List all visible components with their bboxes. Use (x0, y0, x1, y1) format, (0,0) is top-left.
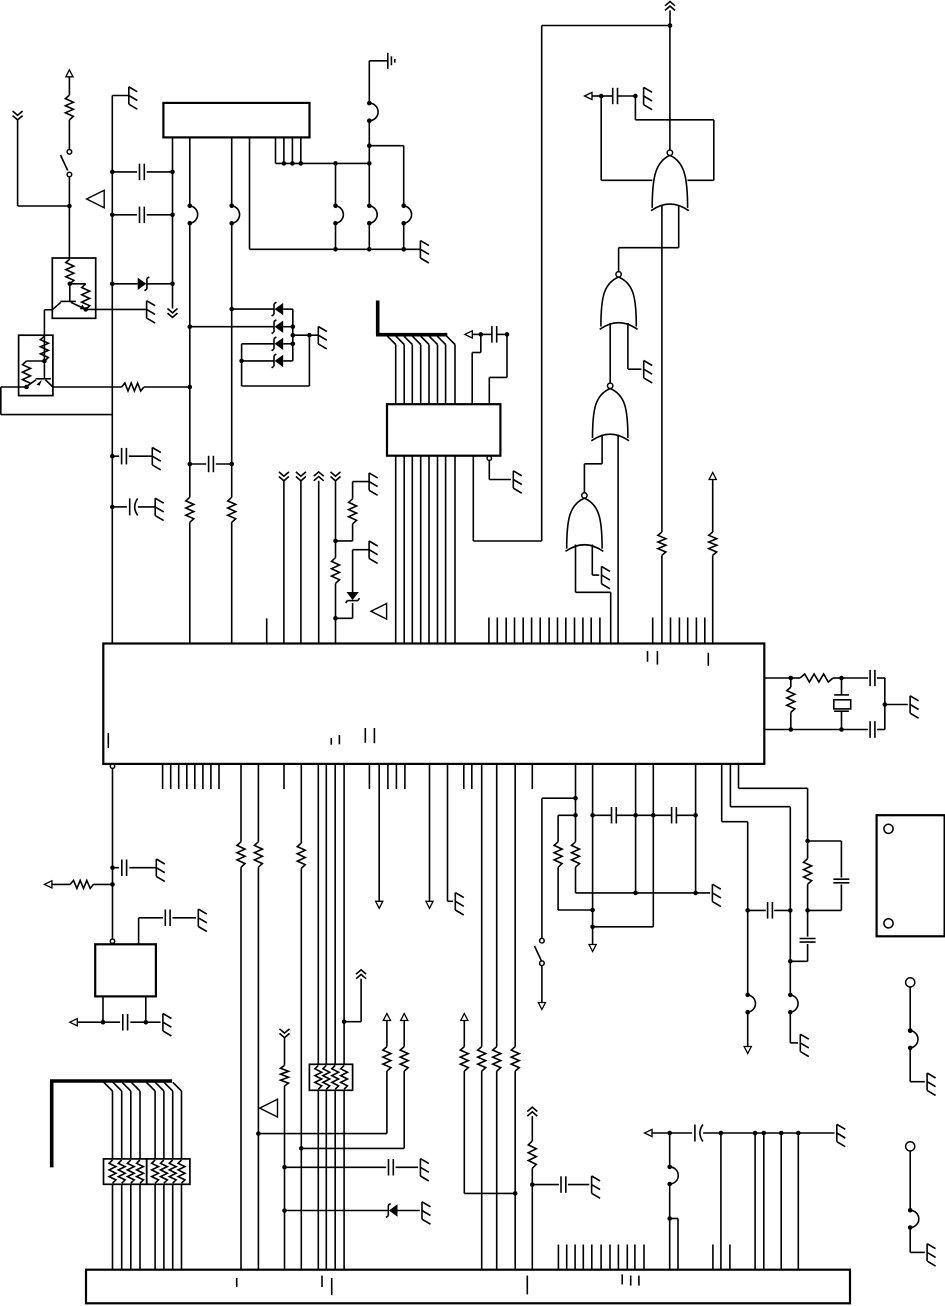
wire (68, 77, 70, 95)
wire (531, 1116, 533, 1141)
transistor Q2 (26, 361, 53, 387)
wire (G3 right input long) (617, 435, 619, 644)
pin circle (110, 764, 114, 768)
wire (G1 bottom input from G2) (619, 206, 679, 272)
wire (754, 1133, 756, 1270)
IC U1 (163, 103, 309, 137)
wire (284, 1038, 286, 1066)
resistor pack RP2 (147, 1159, 190, 1184)
no-connect arrow down (426, 901, 433, 908)
power arrow up (461, 1014, 468, 1021)
wire (112, 768, 114, 939)
ground (422, 1202, 431, 1224)
wire (593, 926, 654, 928)
resistor R28 (787, 687, 795, 712)
wire (807, 884, 809, 936)
wire (576, 867, 711, 893)
wire (481, 764, 483, 1047)
capacitor C4 (polarized) (112, 498, 155, 515)
wire (27, 360, 45, 362)
node junction (110, 170, 115, 175)
wire (240, 867, 242, 1269)
ground (155, 498, 164, 520)
wire (68, 177, 70, 206)
resistor R11 (658, 532, 666, 555)
wire (284, 1086, 286, 1270)
resistor R12 (709, 532, 717, 555)
wire (U1 pin bends right) (250, 137, 421, 249)
wire (558, 867, 593, 910)
wire (row to R18 col) (258, 1133, 387, 1135)
ferrite bead L3 (367, 101, 378, 123)
input arrow (585, 92, 593, 99)
power arrow up (383, 1014, 390, 1021)
capacitor C17 (748, 902, 791, 919)
wire (row to cap) (285, 1166, 387, 1168)
node junction (188, 385, 193, 390)
wire (514, 1071, 516, 1270)
node junction (788, 908, 793, 963)
zener diode D7 (285, 1204, 420, 1218)
wire (344, 979, 361, 1022)
wire (139, 918, 163, 945)
IC pin stub (266, 618, 268, 643)
capacitor C13 (593, 807, 636, 824)
node junction (668, 23, 673, 28)
wire (231, 522, 233, 643)
resistor R3 (82, 284, 90, 310)
wire (144, 386, 190, 388)
capacitor C7 (601, 88, 635, 104)
bus (bold) L-shape (50, 1081, 172, 1167)
wire (189, 223, 191, 497)
wire (U1 pin cluster) (276, 137, 301, 163)
node junction (170, 170, 175, 175)
wire (70, 283, 86, 285)
ground (927, 1244, 936, 1266)
wire (790, 944, 807, 961)
wire (790, 678, 792, 730)
bus fan wires (8) (104, 1082, 182, 1159)
ground (420, 241, 429, 263)
resistor R25 (572, 842, 580, 867)
no-connect arrow down (538, 1003, 545, 1010)
wire (541, 966, 543, 1003)
ground (129, 87, 138, 109)
wire (G4 right input to ground) (592, 545, 599, 576)
bus fan wires (8) (387, 336, 455, 404)
wire (336, 524, 353, 541)
switch S2 (535, 938, 545, 965)
wire (403, 1020, 405, 1046)
IC U3 (103, 644, 764, 764)
node junction (299, 161, 304, 166)
off-sheet chevron (down) (331, 472, 341, 481)
node junction (333, 161, 338, 166)
node A junction (67, 204, 72, 209)
resistor R7 (186, 497, 194, 522)
wire (103, 996, 146, 1022)
power arrow (antenna feed) up (66, 70, 73, 77)
wire (790, 1012, 798, 1043)
wire (910, 1048, 925, 1082)
connector J3 (bottom bar) (86, 1270, 850, 1304)
capacitor C1 (112, 164, 172, 181)
zener diode D1 (112, 277, 172, 291)
NOR gate G2 (600, 272, 638, 330)
node junction (719, 1131, 724, 1136)
node junction (188, 462, 193, 467)
wire (910, 1228, 925, 1253)
wire (arrow pin) (429, 764, 431, 901)
resistor R24 (528, 1141, 536, 1168)
node junction (530, 1182, 535, 1187)
node junction (839, 676, 844, 681)
node junction (667, 1216, 672, 1221)
node junction (839, 727, 844, 732)
wire (531, 1168, 533, 1269)
ground (369, 541, 378, 563)
wire (pin x592) (592, 764, 594, 945)
ground (910, 696, 919, 718)
wire (592, 95, 601, 97)
ground (712, 884, 721, 906)
ferrite bead L4 (367, 204, 377, 226)
node junction (291, 333, 312, 338)
capacitor C18 (842, 670, 885, 686)
IC U3 interior pin marks (108, 651, 708, 748)
NOR gate G4 (566, 493, 604, 552)
wire (884, 678, 886, 730)
wire (68, 206, 70, 258)
transistor block box Q1 (52, 258, 95, 318)
node junction (299, 1146, 304, 1151)
node junction (805, 908, 810, 913)
wire (636, 814, 654, 816)
node junction (83, 307, 88, 312)
power chevron (up) (527, 1107, 537, 1116)
wire (283, 481, 285, 644)
wire (386, 1071, 388, 1134)
wire (left rail) (112, 96, 129, 644)
node junction (573, 796, 578, 818)
power chevron (up) (665, 2, 675, 11)
wire (885, 704, 908, 706)
capacitor C15 (800, 939, 816, 943)
jack J1 (906, 978, 915, 987)
wire (44, 310, 52, 361)
capacitor C6 (481, 326, 507, 343)
wire (335, 223, 337, 249)
wire (Q1 emitter to ground) (86, 308, 147, 310)
ground (147, 301, 156, 323)
ferrite bead L7 (745, 993, 755, 1015)
wire (669, 10, 671, 25)
capacitor C5 (190, 456, 232, 472)
wire (231, 223, 233, 497)
sheet marker triangle (260, 1099, 278, 1117)
node junction (110, 505, 115, 510)
power arrow up (401, 1014, 408, 1021)
ferrite bead L1 (188, 204, 198, 226)
ground (592, 1176, 601, 1198)
node junction (333, 616, 338, 621)
wire (514, 764, 516, 1047)
wire (481, 1071, 483, 1270)
off-sheet chevron (down) (13, 111, 23, 120)
node junction (256, 1131, 261, 1136)
wire (368, 121, 370, 206)
wire (pin x635) (635, 764, 637, 893)
wire (300, 868, 302, 1269)
node junction (599, 94, 604, 99)
wire (661, 555, 663, 643)
wire (403, 223, 405, 249)
resistor R1 (65, 95, 73, 120)
resistor pack RP1 (104, 1159, 147, 1184)
node junction (229, 462, 234, 467)
wire (386, 1020, 388, 1046)
node junction (789, 676, 794, 732)
resistor R17 (281, 1065, 289, 1086)
ferrite bead L5 (333, 204, 343, 226)
IC U2 (387, 404, 500, 456)
wire (808, 885, 842, 911)
wire (797, 1133, 799, 1270)
wire (747, 1012, 749, 1046)
ground (927, 1073, 936, 1095)
wire (row to R19 col) (301, 1147, 404, 1149)
wire (720, 1133, 722, 1270)
zener diode D3 (190, 320, 293, 334)
wire (292, 309, 294, 361)
wire (368, 223, 370, 249)
wire (4 lines to connector) (318, 1090, 344, 1269)
wire (909, 987, 911, 995)
capacitor C9 (165, 910, 196, 927)
resistor R18 (383, 1047, 391, 1072)
wire (arrow pin) (378, 764, 380, 901)
resistor pack RP3 (309, 1064, 352, 1090)
resistor pack elements (315, 1065, 348, 1089)
node junction (110, 865, 115, 870)
wire (branch) (808, 841, 842, 878)
mounting hole (884, 824, 893, 833)
ferrite bead L2 (229, 204, 239, 226)
earth ground (rotated) (388, 53, 395, 69)
wire (146, 1021, 161, 1023)
mounting hole (884, 919, 893, 928)
node junction (110, 213, 115, 218)
resistor R8 (228, 497, 236, 522)
wire (189, 522, 191, 643)
wire (U1 pin) (231, 137, 233, 205)
no-connect arrow down (589, 945, 596, 952)
wire (300, 481, 302, 644)
transistor block box Q2 (19, 335, 53, 395)
node junction (633, 94, 638, 99)
sheet marker triangle (87, 190, 105, 208)
resistor R6 (122, 383, 144, 391)
capacitor C14 (653, 807, 695, 824)
wire (step pin 3) (739, 764, 808, 859)
wire (switch feed) (542, 798, 576, 938)
wire (336, 603, 353, 618)
wire (335, 583, 337, 643)
bus wires to connector (8) (113, 1184, 182, 1269)
node junction (282, 1165, 287, 1213)
resistor R29 (800, 674, 833, 682)
resistor R16 (297, 843, 305, 868)
zener diode D4 (242, 337, 293, 351)
wire (669, 1133, 671, 1167)
sheet marker triangle (371, 604, 387, 620)
wire (353, 550, 370, 592)
wire (G4 left input jog) (576, 545, 611, 644)
node junction (753, 1131, 801, 1136)
crystal Y1 (834, 678, 851, 730)
ground (318, 327, 327, 349)
ground (198, 909, 207, 931)
connector pin stubs (558, 1245, 730, 1270)
wire (669, 1184, 671, 1270)
node junction (110, 882, 115, 887)
resistor R2 (66, 259, 74, 284)
off-sheet chevron (down) (279, 472, 289, 481)
node junction (745, 908, 750, 913)
wire (309, 334, 318, 336)
power rail wire (473, 26, 670, 542)
resistor R26 (554, 842, 562, 867)
capacitor C12 (532, 1176, 589, 1193)
node junction (110, 454, 115, 459)
wire (403, 1071, 405, 1148)
wire (G3 left input from G4) (584, 435, 602, 493)
wire (496, 1071, 498, 1270)
wire (jog) (670, 1219, 678, 1270)
ground (369, 473, 378, 495)
wire (G2 left input from G3) (609, 323, 611, 383)
NOR gate G3 (591, 383, 629, 441)
ground (602, 566, 611, 588)
ground (513, 471, 522, 493)
capacitor C20 (polarized) (670, 1125, 721, 1142)
node junction (633, 891, 698, 896)
resistor R20 (460, 1047, 468, 1072)
ground (455, 893, 464, 915)
wire (489, 460, 511, 479)
node junction (24, 385, 29, 390)
node junction (68, 282, 73, 287)
node junction (239, 359, 244, 364)
resistor R5 (23, 361, 31, 387)
node junction (667, 1131, 672, 1136)
wire (4 lines to pack) (318, 764, 344, 1064)
wire (53, 386, 122, 388)
wire (721, 1132, 835, 1134)
wire (240, 764, 242, 842)
wire (pin x695) (695, 764, 697, 893)
wire (369, 61, 388, 103)
ground (420, 1159, 429, 1181)
ferrite bead L8 (788, 993, 798, 1015)
node junction (590, 813, 595, 929)
power chevron (up) (314, 472, 324, 481)
node junction (693, 813, 698, 818)
resistor R27 (804, 859, 812, 885)
capacitor C3 (112, 448, 152, 465)
node junction (633, 813, 655, 818)
wire (G1 bottom input long) (661, 206, 663, 533)
switch S1 (61, 150, 72, 177)
wire (472, 334, 481, 404)
resistor R23 (511, 1047, 519, 1072)
wire (step pin 2) (730, 764, 790, 995)
node junction (188, 324, 296, 329)
off-sheet chevron (down) (168, 309, 178, 318)
ferrite bead L10 (908, 1028, 918, 1050)
node junction (170, 282, 175, 287)
wire (712, 480, 714, 533)
node junction (479, 332, 484, 337)
node junction (367, 143, 372, 148)
wire (jog to R26) (558, 815, 575, 842)
node junction (883, 702, 888, 707)
node junction (367, 161, 372, 166)
node junction (229, 307, 234, 312)
capacitor C19 (791, 721, 885, 738)
resistor R9 (349, 499, 357, 524)
output arrow (645, 1129, 653, 1136)
wire (pin x653) (652, 764, 654, 927)
ground (800, 1034, 809, 1056)
node junction (110, 282, 115, 287)
wire (353, 482, 370, 499)
node junction (367, 247, 372, 252)
wire (276, 162, 370, 164)
wire (763, 1133, 765, 1270)
ground (156, 859, 165, 881)
wire (909, 995, 911, 1031)
resistor R21 (478, 1047, 486, 1072)
no-connect arrow down (376, 901, 383, 908)
resistor R19 (400, 1047, 408, 1072)
wire (U3 XTAL pins) (764, 678, 791, 730)
wire (18, 120, 70, 206)
wire (489, 334, 507, 404)
ferrite bead L6 (401, 204, 411, 226)
output arrow (44, 881, 52, 888)
resistor R10 (332, 558, 340, 584)
ferrite bead L9 (908, 1028, 913, 1033)
node junction (101, 1020, 148, 1025)
bus wires U2 to U3 (8) (396, 456, 455, 644)
node junction (333, 247, 338, 252)
pin circle (487, 456, 491, 460)
zener diode D6 (346, 592, 360, 603)
wire (G1 right input) (635, 96, 713, 180)
node junction (505, 332, 510, 337)
ground (163, 1014, 172, 1036)
wire (pin x575) (575, 764, 577, 842)
wire (652, 1132, 670, 1134)
node junction (513, 1191, 518, 1196)
ground (644, 87, 653, 109)
node junction (333, 539, 338, 544)
wire (G2 right input to ground) (628, 323, 642, 369)
node junction (290, 161, 295, 166)
pin circle (110, 939, 114, 943)
